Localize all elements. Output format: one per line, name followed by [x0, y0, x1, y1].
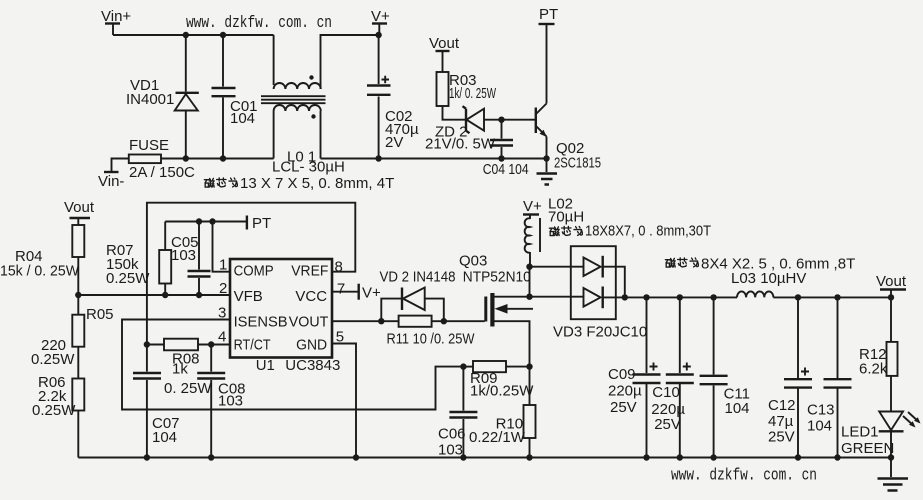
node C02 bottom [375, 155, 381, 161]
wire top rail left [113, 34, 274, 36]
node C13 rail [834, 454, 840, 460]
node C02 top [375, 32, 381, 38]
zener ZD2 [425, 106, 535, 152]
node VD1 top [183, 32, 189, 38]
svg-text:PT: PT [252, 215, 271, 232]
svg-text:IN4001: IN4001 [126, 91, 174, 108]
svg-text:C04 104: C04 104 [483, 161, 529, 178]
node C11 top [710, 294, 716, 300]
inductor L03 [731, 270, 806, 297]
svg-text:1k: 1k [172, 361, 188, 378]
transformer L01 common-mode choke [261, 35, 379, 176]
node ZD2/C04 [498, 117, 504, 123]
node C13 top [834, 294, 840, 300]
svg-text:0.25W: 0.25W [32, 402, 76, 419]
ground output [878, 458, 909, 491]
terminal PT mid [247, 215, 271, 232]
svg-text:104: 104 [152, 429, 177, 446]
svg-text:L03 10µHV: L03 10µHV [731, 270, 806, 287]
svg-text:Vout: Vout [64, 199, 95, 216]
svg-text:www. dzkfw. com. cn: www. dzkfw. com. cn [671, 466, 817, 485]
node R09 right / R10 [526, 363, 532, 369]
wire output rail [625, 296, 891, 298]
diode VD2 IN4148 [380, 269, 456, 322]
node R09 left / C06 [460, 363, 466, 369]
ground Q02 [537, 174, 558, 185]
svg-text:V+: V+ [523, 198, 542, 215]
node VD2 right [441, 318, 447, 324]
node C09 rail [643, 454, 649, 460]
node C07 rail [144, 454, 150, 460]
svg-text:C12: C12 [768, 397, 796, 414]
node Vout rail [888, 294, 894, 300]
node C11 rail [710, 454, 716, 460]
node VD1 bottom [183, 155, 189, 161]
svg-text:VD 2 IN4148: VD 2 IN4148 [380, 269, 456, 286]
capacitor C04 [483, 120, 529, 178]
node LED rail [888, 454, 894, 460]
svg-text:GREEN: GREEN [841, 440, 894, 457]
svg-text:Vin-: Vin- [98, 173, 124, 190]
svg-text:FUSE: FUSE [129, 137, 169, 154]
capacitor C12 polarized [768, 297, 812, 457]
svg-text:103: 103 [218, 393, 243, 410]
capacitor C02 polarized [367, 35, 419, 159]
transistor Q02 2SC1815 [536, 24, 601, 172]
node C05 bottom [196, 292, 202, 298]
svg-text:104: 104 [807, 418, 832, 435]
svg-text:0.22/1W: 0.22/1W [469, 429, 526, 446]
svg-text:220µ: 220µ [608, 383, 642, 400]
svg-text:0.25W: 0.25W [106, 270, 150, 287]
svg-text:15k / 0. 25W: 15k / 0. 25W [0, 263, 80, 280]
dual diode VD3 F20JC10 [530, 246, 648, 340]
svg-text:www. dzkfw. com. cn: www. dzkfw. com. cn [186, 13, 332, 32]
svg-text:R05: R05 [86, 306, 114, 323]
svg-text:1k/ 0. 25W: 1k/ 0. 25W [449, 85, 497, 102]
node C04 bottom [498, 155, 504, 161]
resistor R06 [32, 374, 84, 458]
wire VREF loop (pin8 around top to R08) [147, 203, 355, 345]
node GND rail [353, 454, 359, 460]
resistor R08 [147, 339, 230, 397]
svg-text:2A / 150C: 2A / 150C [129, 164, 195, 181]
svg-text:UC3843: UC3843 [285, 357, 340, 374]
svg-text:C06: C06 [438, 426, 466, 443]
svg-text:103: 103 [438, 442, 463, 459]
svg-text:2V: 2V [385, 134, 403, 151]
node C01 top [220, 32, 226, 38]
node C09 top [643, 294, 649, 300]
capacitor C13 [807, 297, 852, 457]
svg-text:47µ: 47µ [768, 413, 794, 430]
svg-text:1: 1 [219, 257, 227, 274]
diode VD1 [126, 35, 199, 159]
wire ground rail bottom [78, 457, 891, 459]
terminal Vin- [98, 159, 129, 191]
svg-text:18X8X7, 0 . 8mm,30T: 18X8X7, 0 . 8mm,30T [585, 223, 711, 240]
svg-text:0. 25W: 0. 25W [164, 380, 212, 397]
LED LED1 GREEN [841, 412, 921, 458]
terminal Vout (top, R03) [429, 35, 460, 72]
terminal PT top [539, 6, 559, 24]
svg-text:NTP52N10: NTP52N10 [463, 269, 531, 286]
svg-text:2: 2 [219, 280, 227, 297]
resistor R05 [31, 295, 114, 379]
wire GND pin5 [332, 344, 356, 458]
terminal Vin+ [101, 8, 131, 35]
svg-text:C09: C09 [608, 366, 636, 383]
resistor R11 [387, 316, 485, 348]
svg-text:LCL- 30µH: LCL- 30µH [272, 159, 345, 176]
node R08 right / pin4 [208, 341, 214, 347]
node L02 / drain [526, 264, 532, 270]
capacitor C05 [171, 222, 211, 296]
svg-text:6.2k: 6.2k [859, 361, 888, 378]
resistor R12 [859, 342, 898, 412]
wire primary bottom rail [161, 158, 549, 160]
svg-text:R11 10 /0. 25W: R11 10 /0. 25W [387, 331, 476, 348]
capacitor C01 [212, 35, 258, 159]
node Q03 drain [526, 294, 532, 300]
core note 2 (18X8X7, 0.8mm, 30T) [549, 223, 711, 240]
svg-text:PT: PT [539, 6, 558, 23]
svg-text:103: 103 [171, 247, 196, 264]
capacitor C07 [133, 345, 180, 458]
node C10 top [677, 294, 683, 300]
svg-text:104: 104 [230, 110, 255, 127]
node COMP link top [209, 218, 215, 224]
svg-text:25V: 25V [768, 429, 795, 446]
resistor R10 [469, 367, 536, 458]
svg-text:25V: 25V [610, 399, 637, 416]
svg-text:V+: V+ [362, 285, 381, 302]
node Q02 emitter / rail [543, 155, 549, 161]
terminal Vout left [64, 199, 95, 225]
svg-text:VOUT: VOUT [289, 314, 329, 331]
svg-text:VFB: VFB [234, 288, 263, 305]
svg-text:COMP: COMP [234, 262, 274, 279]
svg-text:ISENSB: ISENSB [234, 314, 288, 331]
wire COMP pin1 link [213, 222, 231, 272]
svg-text:70µH: 70µH [548, 209, 584, 226]
node VFB/R04 [75, 292, 81, 298]
inductor L02 [525, 196, 585, 267]
wire drain to L02 node [529, 267, 531, 297]
svg-text:VD3 F20JC10: VD3 F20JC10 [553, 324, 647, 341]
op-amp U1 UC3843 IC box [230, 259, 340, 374]
node C01 bottom [220, 155, 226, 161]
capacitor C11 [700, 297, 750, 457]
svg-text:25V: 25V [654, 416, 681, 433]
resistor R03 [437, 72, 497, 120]
node R10 rail [526, 454, 532, 460]
svg-text:4: 4 [218, 329, 226, 346]
svg-text:1k/0.25W: 1k/0.25W [470, 383, 534, 400]
svg-text:RT/CT: RT/CT [234, 337, 271, 354]
node VD3 cathode [622, 294, 628, 300]
svg-text:C10: C10 [652, 384, 680, 401]
wire VOUT pin6 [332, 320, 399, 322]
svg-text:VREF: VREF [291, 262, 328, 279]
wire ISENSB pin3 loop [122, 320, 463, 410]
core note 1 (cizin wei 13X7X5, 0.8mm, 4T) [204, 175, 394, 192]
node R07 bottom [162, 292, 168, 298]
svg-text:0.25W: 0.25W [31, 351, 75, 368]
transistor Q03 NTP52N10 MOSFET [459, 253, 533, 367]
core note 3 (8X4X2.5, 0.6mm, 8T) [665, 255, 855, 272]
svg-text:21V/0. 5W: 21V/0. 5W [425, 136, 496, 153]
capacitor C06 [438, 367, 477, 459]
svg-text:7: 7 [337, 281, 345, 298]
svg-text:2SC1815: 2SC1815 [554, 155, 601, 172]
node R08 left [144, 341, 150, 347]
svg-text:LED1: LED1 [841, 424, 879, 441]
resistor R09 [463, 361, 534, 400]
node C12 top [795, 294, 801, 300]
terminal Vout right [876, 273, 907, 342]
svg-text:GND: GND [296, 337, 327, 354]
resistor R07 [106, 222, 171, 296]
wire VFB to pin2 [78, 294, 230, 296]
svg-text:Q03: Q03 [459, 253, 487, 270]
terminal V+ top [371, 8, 390, 35]
node C05 top [196, 218, 202, 224]
svg-text:8: 8 [335, 259, 343, 276]
node VD2 left [378, 318, 384, 324]
node C10 rail [677, 454, 683, 460]
svg-text:Vout: Vout [429, 35, 460, 52]
svg-text:U1: U1 [256, 357, 275, 374]
terminal V+ L02 [523, 198, 542, 219]
node C12 rail [795, 454, 801, 460]
svg-text:13 X 7 X 5, 0. 8mm, 4T: 13 X 7 X 5, 0. 8mm, 4T [240, 175, 394, 192]
fuse FUSE 2A/150C [129, 137, 195, 181]
terminal V+ pin7 [332, 284, 381, 302]
svg-text:104: 104 [725, 400, 750, 417]
node C08 rail [208, 454, 214, 460]
wire COMP top line to PT [165, 221, 247, 223]
node C06 rail [460, 454, 466, 460]
svg-text:VCC: VCC [295, 288, 327, 305]
svg-text:C13: C13 [807, 402, 835, 419]
svg-text:Vout: Vout [876, 273, 907, 290]
capacitor C09 polarized [608, 297, 661, 457]
capacitor C10 polarized [651, 297, 694, 457]
resistor R04 [0, 225, 84, 295]
capacitor C08 [197, 345, 245, 458]
